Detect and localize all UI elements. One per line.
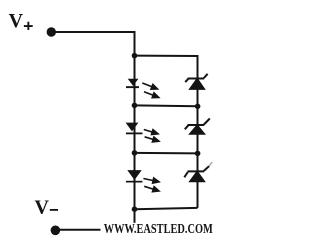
node junction F (right rung3) [195, 151, 201, 157]
wire rung 1 (top of cell 1) [135, 55, 198, 57]
node junction C (left rung3) [132, 150, 138, 156]
wire rung 4 (bottom) [135, 208, 198, 209]
wire rung 3 [135, 152, 198, 155]
wire top from V+ to left rail [51, 31, 135, 33]
wire left rail [134, 31, 136, 230]
zener diode Z2 [185, 119, 210, 134]
terminal V+ [47, 27, 56, 36]
LED D2 [126, 123, 143, 135]
wire rung 2 [135, 104, 198, 107]
node junction A (left rung1) [132, 53, 138, 59]
node junction D (left rung4) [132, 206, 138, 212]
svg-text:V: V [9, 10, 24, 32]
LED D1 [126, 79, 139, 88]
wire bottom from V- [55, 229, 134, 231]
svg-text:WWW.EASTLED.COM: WWW.EASTLED.COM [104, 222, 213, 237]
scratch mark near Z3 [209, 162, 212, 166]
svg-text:V: V [35, 197, 50, 219]
LED D2 arrows [144, 130, 159, 142]
watermark WWW.EASTLED.COM [101, 223, 217, 236]
LED D3 [126, 170, 142, 182]
terminal V- [51, 226, 61, 236]
LED D3 arrows [143, 178, 159, 192]
LED D1 arrows [142, 83, 158, 98]
zener diode Z1 [185, 74, 207, 89]
node junction B (left rung2) [132, 103, 138, 109]
node junction E (right rung2) [195, 104, 201, 110]
wire right rail [197, 55, 199, 208]
zener diode Z3 [184, 166, 209, 181]
